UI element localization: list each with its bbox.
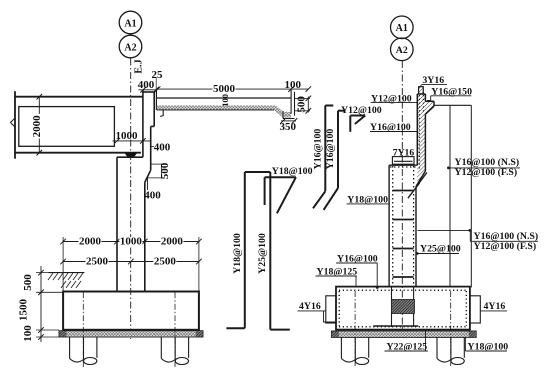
U-bar loop left (326, 296, 336, 323)
wall links (rungs) (393, 191, 414, 278)
svg-text:A1: A1 (396, 23, 408, 34)
svg-text:4Y16: 4Y16 (299, 301, 321, 312)
break mark on girder (11, 118, 16, 127)
bearing (left view, black pad) (125, 153, 138, 157)
abutment wall front face (116, 157, 118, 292)
lap splice hatch block (391, 300, 414, 314)
svg-text:A2: A2 (396, 45, 408, 56)
dimension 2000 (girder depth) (31, 94, 43, 156)
svg-text:Y16@100: Y16@100 (313, 129, 324, 170)
slab soffit (157, 109, 274, 111)
label Y12@100 (right view left) (371, 93, 418, 104)
label 4Y16 (left) (298, 301, 337, 322)
label Y16@100 (right view left) (370, 122, 417, 133)
label 3Y16 (420, 75, 447, 87)
svg-text:500: 500 (159, 162, 171, 179)
approach slab seat line (right view) (434, 104, 471, 106)
svg-text:2000: 2000 (161, 236, 184, 248)
dimension 400 (taper lower) (144, 178, 161, 202)
svg-text:Y12@100 (F.S): Y12@100 (F.S) (474, 241, 537, 252)
rebar hook bar Y18 (265, 177, 296, 213)
rebar bent bar Y16 (first) (313, 106, 333, 209)
girder (deck beam outline) (14, 91, 143, 159)
backwall rebar dotted lines (419, 95, 423, 170)
approach slab (deck, left view) (156, 89, 291, 110)
dimension 5000 (approach slab) (155, 79, 311, 95)
blinding layer (left view) (59, 331, 203, 337)
pile pair (left view, left) (70, 292, 97, 367)
slab concrete stipple (157, 106, 291, 118)
svg-text:500: 500 (22, 274, 34, 291)
dimension 400 (ballast wall width, top) (138, 78, 159, 93)
svg-text:2500: 2500 (86, 256, 109, 268)
svg-text:Y18@100: Y18@100 (272, 166, 313, 177)
wall seat (right view) (389, 164, 417, 166)
pile pair (left view, right) (161, 292, 188, 367)
bent bar diagonals in wall (408, 173, 427, 199)
svg-text:Y25@100: Y25@100 (420, 244, 461, 255)
backwall hatched body (417, 94, 434, 184)
node A2 (right) (391, 38, 414, 61)
label Y18@100 (bottom right) (465, 337, 508, 353)
footing (left view) (63, 292, 199, 330)
svg-text:1000: 1000 (116, 130, 139, 142)
joint seal recess (160, 110, 163, 117)
pile pair (right view, left) (341, 291, 368, 367)
svg-text:Y25@100: Y25@100 (257, 233, 268, 274)
svg-text:400: 400 (138, 79, 155, 91)
svg-text:5000: 5000 (213, 83, 236, 95)
dimension 500/1500/100 (left vertical stack) (18, 266, 64, 342)
U-bar loop right (470, 296, 480, 323)
centerline (left view) (130, 59, 132, 340)
wall stem (right view) (389, 165, 416, 287)
rebar U-bar (Y18/Y25) (226, 172, 289, 330)
svg-text:2500: 2500 (154, 256, 177, 268)
svg-text:100: 100 (285, 79, 302, 91)
svg-text:400: 400 (154, 141, 171, 153)
svg-text:A2: A2 (124, 42, 136, 53)
svg-text:1500: 1500 (18, 299, 30, 322)
ground line and soil hatch (48, 273, 84, 288)
wing wall edge (near) (449, 105, 451, 287)
node A1 (left) (119, 11, 142, 34)
dimension row 2000/1000/2000 (60, 236, 201, 292)
parapet stub (419, 87, 424, 94)
slab end block (283, 89, 295, 118)
svg-text:Y12@100: Y12@100 (341, 105, 382, 116)
svg-text:25: 25 (152, 69, 164, 81)
label Y16@150 (427, 86, 472, 100)
label 4Y16 (right) (480, 301, 507, 312)
label Y25@100 (416, 244, 461, 255)
svg-text:E.J: E.J (133, 59, 144, 73)
bottom lap bar (373, 325, 418, 327)
footing rebar dots (339, 290, 467, 327)
svg-text:A1: A1 (124, 18, 136, 29)
dimension 350 (slab end width) (280, 118, 298, 133)
girder inner box (19, 107, 115, 147)
ballast wall (143, 90, 154, 292)
label pair Y16@100 (N.S) / Y12@100 (F.S) upper (447, 157, 520, 178)
svg-text:2000: 2000 (79, 236, 102, 248)
backwall (right view) (416, 94, 434, 187)
svg-text:1000: 1000 (120, 236, 143, 248)
node A1 (right) (391, 16, 414, 39)
svg-text:100: 100 (220, 94, 230, 107)
svg-text:400: 400 (144, 190, 161, 202)
dimension 400 (corbel step) (151, 141, 171, 153)
wing wall edge (far) (470, 105, 472, 287)
dimension 500 (slab end depth) (295, 96, 312, 114)
blinding layer (right view) (331, 331, 476, 337)
dimension 500 (taper, vertical) (146, 162, 171, 179)
label Y18@100 (bent bars, right view) (347, 195, 390, 206)
bearing pad (right view) (392, 157, 414, 165)
label Y22@125 (385, 331, 429, 353)
dimension 1000 (wall front to ballast) (113, 130, 151, 144)
svg-text:Y12@100 (F.S): Y12@100 (F.S) (455, 167, 518, 178)
svg-text:Y16@100: Y16@100 (325, 129, 336, 170)
centerline (right view) (401, 61, 403, 334)
svg-text:2000: 2000 (31, 115, 43, 138)
dimension row 2500/2500 (60, 256, 201, 268)
label pair Y16@100 (N.S) / Y12@100 (F.S) lower (418, 229, 539, 252)
svg-text:100: 100 (22, 325, 34, 342)
svg-text:500: 500 (296, 96, 308, 113)
pile pair (right view, right) (437, 291, 464, 367)
bearing seat top (117, 156, 143, 158)
node A2 (left) (119, 35, 142, 58)
rebar bent bar Y16 (second) (324, 111, 346, 210)
svg-text:4Y16: 4Y16 (484, 301, 506, 312)
rebar flag bar Y12 (350, 116, 365, 132)
svg-text:Y18@100: Y18@100 (232, 233, 243, 274)
svg-text:350: 350 (280, 121, 297, 133)
label Y18@125 (316, 266, 358, 287)
footing (right view) (336, 287, 470, 330)
label Y16@100 (bottom left of right view) (336, 253, 379, 289)
